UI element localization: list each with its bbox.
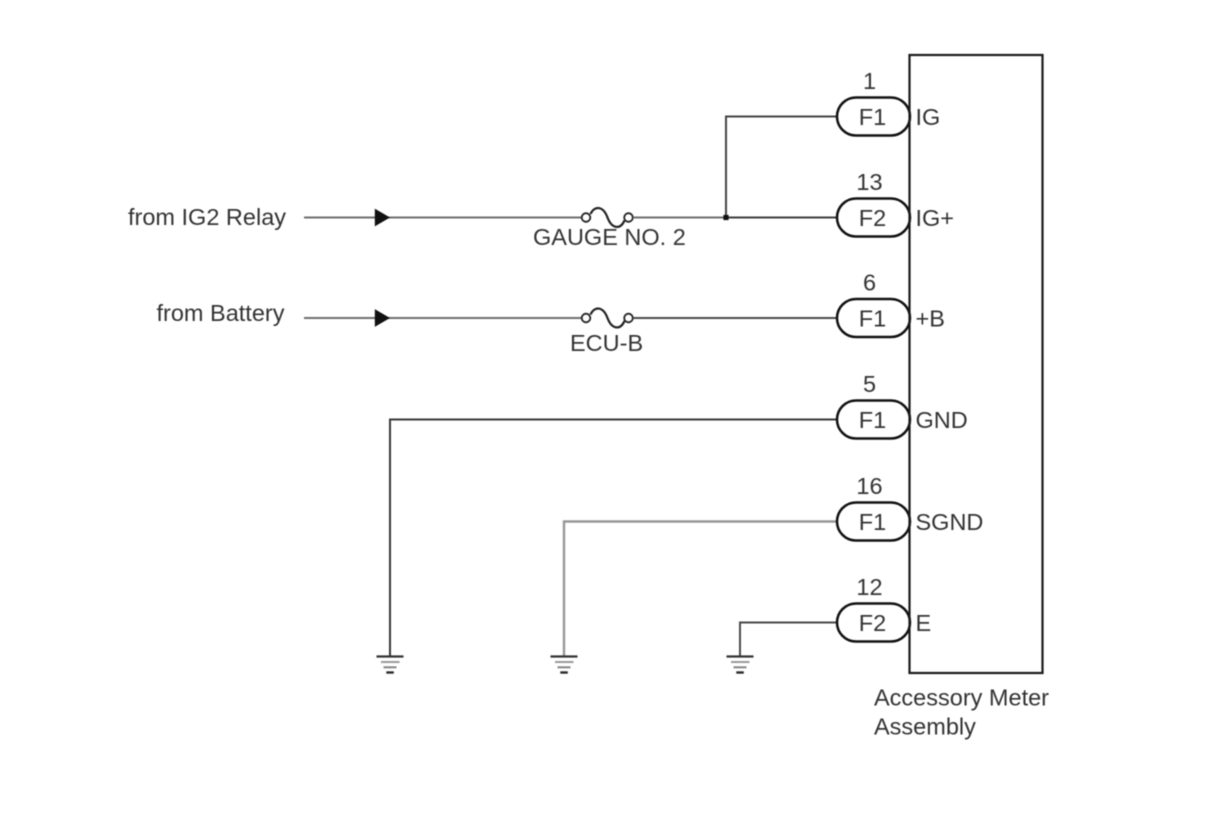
pin 5 connector F1 <box>837 401 910 439</box>
wire branch up to pin F1 IG <box>726 117 842 218</box>
svg-text:Assembly: Assembly <box>874 713 976 739</box>
component label Accessory Meter Assembly <box>874 685 1049 740</box>
pin 13 connector F2 <box>837 199 910 237</box>
svg-text:from Battery: from Battery <box>157 300 285 326</box>
pin 6 connector F1 <box>837 299 910 337</box>
wire fuse to junction <box>633 217 726 219</box>
arrow on IG2 Relay wire <box>375 209 390 227</box>
svg-text:Accessory Meter: Accessory Meter <box>874 685 1049 711</box>
pin 16 connector F1 <box>837 503 910 541</box>
svg-text:GND: GND <box>916 407 968 433</box>
svg-text:5: 5 <box>863 371 876 397</box>
wire pin F1 SGND to ground <box>564 522 842 657</box>
svg-text:F1: F1 <box>859 407 886 433</box>
svg-text:from IG2 Relay: from IG2 Relay <box>128 204 286 230</box>
wire from Battery to fuse <box>304 317 582 319</box>
svg-text:F2: F2 <box>859 205 886 231</box>
wire pin F2 E to ground <box>740 623 842 657</box>
wire pin F1 GND to ground <box>390 420 842 657</box>
svg-text:GAUGE NO. 2: GAUGE NO. 2 <box>533 224 686 250</box>
ground symbol 2 <box>551 657 578 673</box>
junction node <box>723 215 728 220</box>
pin 12 connector F2 <box>837 604 910 642</box>
pin 1 connector F1 <box>837 98 910 136</box>
wire from IG2 Relay to fuse <box>304 217 582 219</box>
svg-text:E: E <box>916 610 932 636</box>
svg-text:13: 13 <box>856 169 882 195</box>
wire junction to pin F2 IG+ <box>726 217 842 219</box>
ground symbol 3 <box>727 657 754 673</box>
Accessory Meter Assembly box U1 <box>910 55 1043 673</box>
ground symbol 1 <box>377 657 404 673</box>
svg-text:+B: +B <box>916 305 945 331</box>
svg-text:1: 1 <box>863 68 876 94</box>
svg-text:SGND: SGND <box>916 509 984 535</box>
fuse ECU-B <box>582 309 633 328</box>
arrow on Battery wire <box>375 309 390 327</box>
svg-text:ECU-B: ECU-B <box>570 330 643 356</box>
svg-text:F2: F2 <box>859 610 886 636</box>
svg-text:F1: F1 <box>859 104 886 130</box>
svg-text:IG+: IG+ <box>916 205 955 231</box>
svg-text:IG: IG <box>916 104 941 130</box>
svg-text:12: 12 <box>856 574 882 600</box>
svg-text:6: 6 <box>863 270 876 296</box>
svg-text:F1: F1 <box>859 509 886 535</box>
svg-text:F1: F1 <box>859 305 886 331</box>
svg-text:16: 16 <box>856 473 882 499</box>
wire fuse to pin F1 +B <box>633 317 842 319</box>
fuse GAUGE NO. 2 <box>582 208 633 227</box>
